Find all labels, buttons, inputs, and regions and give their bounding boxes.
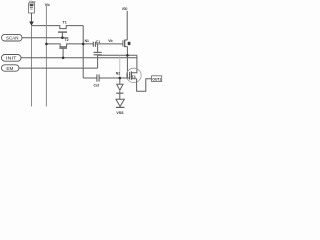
svg-text:Vdata: Vdata	[29, 0, 36, 4]
svg-text:SCAN: SCAN	[6, 35, 19, 40]
svg-text:VSS: VSS	[116, 111, 124, 115]
svg-text:Vb: Vb	[108, 39, 112, 43]
svg-text:N1: N1	[85, 39, 89, 43]
svg-text:Vb: Vb	[45, 3, 51, 7]
svg-text:T4: T4	[132, 75, 136, 79]
svg-text:OUT1: OUT1	[152, 77, 161, 81]
svg-text:EM: EM	[6, 66, 14, 71]
svg-text:N2: N2	[116, 72, 120, 76]
svg-text:INIT: INIT	[6, 56, 17, 61]
svg-text:VDD: VDD	[122, 7, 128, 11]
svg-text:T1: T1	[63, 20, 67, 24]
svg-text:Cst: Cst	[94, 84, 100, 88]
svg-text:T2: T2	[64, 38, 68, 42]
svg-text:C1: C1	[96, 40, 100, 44]
